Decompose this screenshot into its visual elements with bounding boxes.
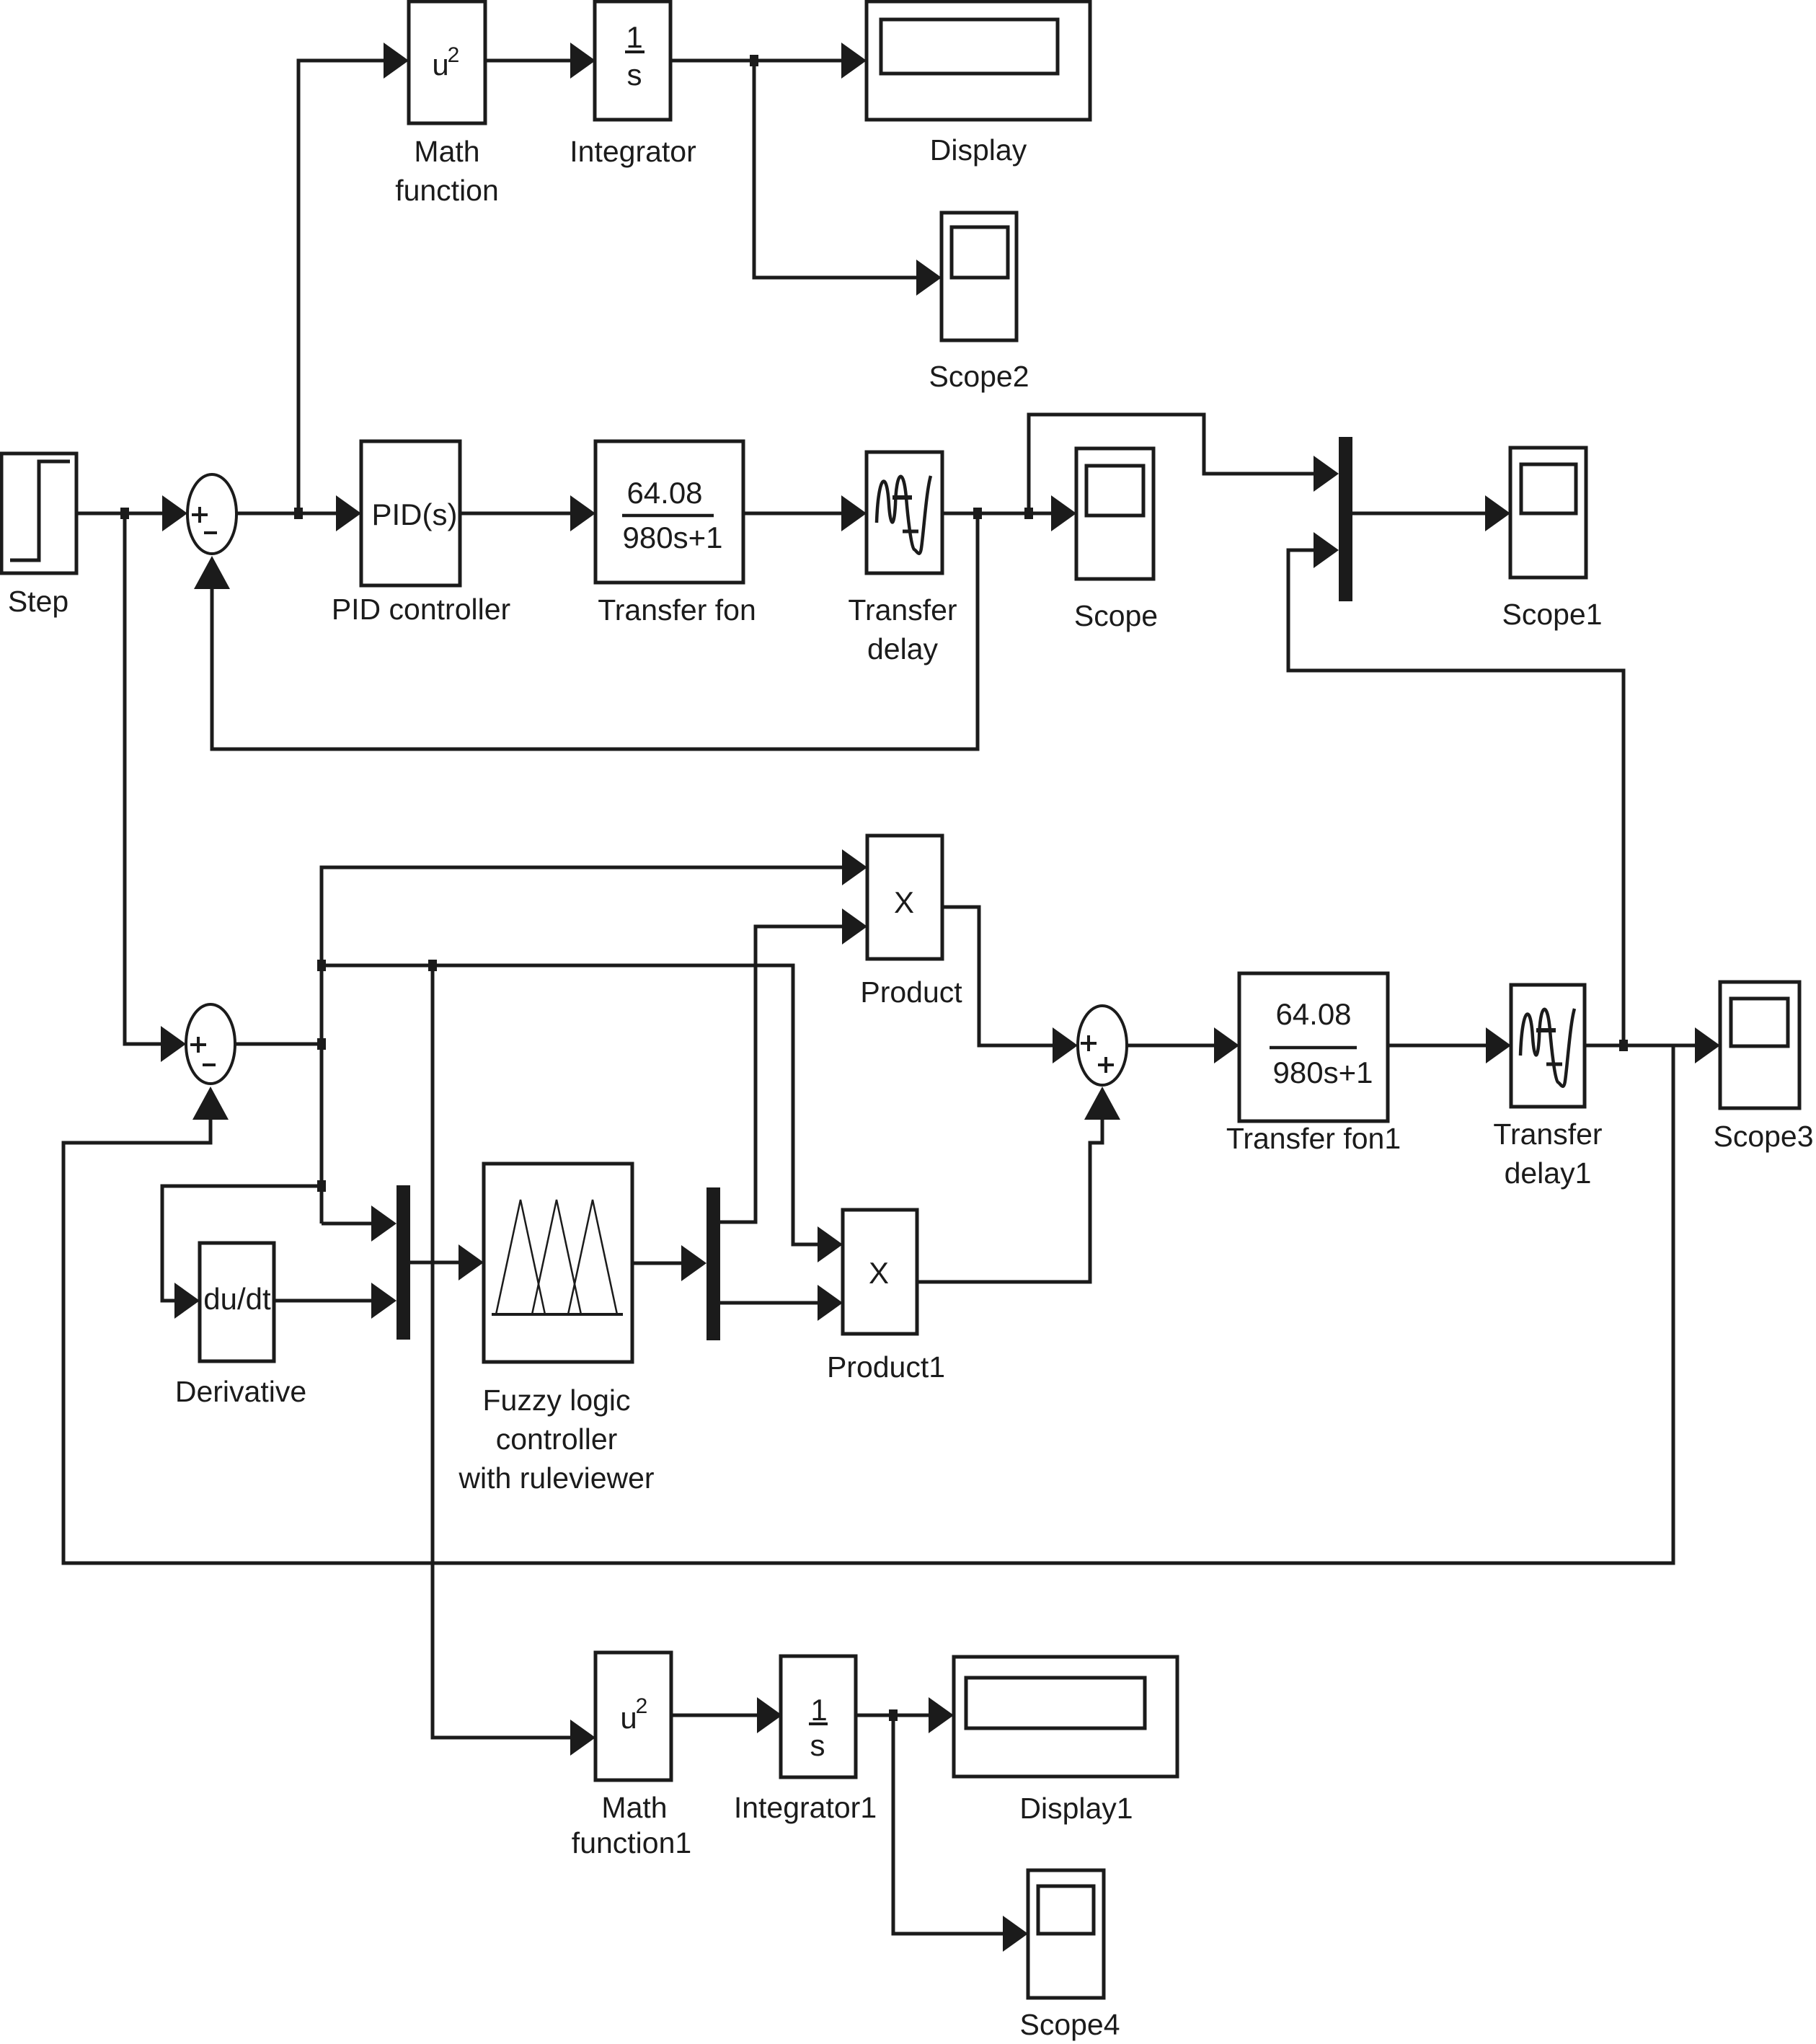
svg-text:delay: delay [867, 632, 939, 665]
svg-text:2: 2 [636, 1694, 648, 1718]
svg-text:Scope2: Scope2 [929, 360, 1029, 393]
svg-text:Math: Math [601, 1791, 667, 1824]
svg-text:Derivative: Derivative [175, 1375, 306, 1408]
svg-text:u: u [432, 48, 448, 81]
svg-text:delay1: delay1 [1505, 1156, 1592, 1190]
svg-text:Integrator1: Integrator1 [734, 1791, 877, 1824]
svg-text:Transfer: Transfer [848, 593, 957, 627]
svg-text:64.08: 64.08 [626, 476, 702, 510]
svg-text:Transfer: Transfer [1493, 1118, 1602, 1151]
svg-text:s: s [810, 1728, 825, 1762]
svg-text:s: s [627, 58, 642, 92]
svg-text:980s+1: 980s+1 [1273, 1056, 1373, 1089]
svg-text:Step: Step [8, 585, 68, 618]
svg-text:Scope3: Scope3 [1713, 1120, 1813, 1153]
svg-text:with ruleviewer: with ruleviewer [458, 1461, 654, 1495]
svg-text:X: X [869, 1256, 889, 1290]
svg-text:function1: function1 [572, 1826, 691, 1859]
svg-text:Display: Display [930, 133, 1027, 167]
svg-text:64.08: 64.08 [1275, 997, 1351, 1031]
svg-text:Scope4: Scope4 [1019, 2008, 1120, 2041]
svg-text:Product1: Product1 [827, 1350, 945, 1384]
svg-text:Product: Product [860, 975, 962, 1009]
svg-text:Scope1: Scope1 [1502, 598, 1602, 631]
svg-text:Display1: Display1 [1019, 1792, 1133, 1825]
svg-text:PID controller: PID controller [332, 593, 510, 626]
svg-text:1: 1 [626, 20, 642, 54]
svg-text:PID(s): PID(s) [372, 497, 458, 531]
svg-text:Math: Math [414, 135, 479, 168]
svg-text:1: 1 [810, 1693, 827, 1727]
svg-text:controller: controller [496, 1423, 618, 1456]
svg-text:du/dt: du/dt [203, 1282, 271, 1316]
svg-text:Integrator: Integrator [570, 135, 696, 168]
svg-text:X: X [894, 885, 914, 919]
svg-text:980s+1: 980s+1 [623, 521, 723, 554]
svg-text:u: u [620, 1701, 637, 1735]
svg-text:function: function [395, 174, 499, 207]
svg-text:Fuzzy logic: Fuzzy logic [482, 1384, 630, 1417]
svg-text:Transfer fon1: Transfer fon1 [1226, 1122, 1401, 1155]
svg-text:Transfer fon: Transfer fon [598, 593, 756, 627]
svg-text:Scope: Scope [1074, 599, 1158, 632]
svg-text:2: 2 [448, 43, 460, 67]
